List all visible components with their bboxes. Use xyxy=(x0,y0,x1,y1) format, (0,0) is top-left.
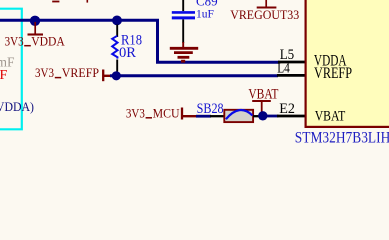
power port VREGOUT33 xyxy=(230,0,299,22)
svg-text:3V3: 3V3 xyxy=(126,105,145,120)
power port 3V3_VDDA xyxy=(5,22,66,48)
ground (power gnd under C89) xyxy=(170,42,198,61)
svg-text:VBAT: VBAT xyxy=(315,108,346,124)
junction node D (VBAT tap) xyxy=(258,111,267,120)
svg-text:F: F xyxy=(0,68,8,83)
svg-text:(VDDA): (VDDA) xyxy=(0,99,34,114)
wire: 3V3_VDDA rail to pin L5 xyxy=(0,20,280,62)
svg-text:MCU: MCU xyxy=(153,105,180,120)
net label fragment (top edge, cut) xyxy=(52,1,59,3)
svg-text:SB28: SB28 xyxy=(197,101,224,117)
pin L5 (VDDA) xyxy=(278,61,305,64)
pin L4 (VREFP) xyxy=(277,74,305,77)
solder bridge SB28 xyxy=(210,110,260,122)
wire stub fragment (top edge, cut) xyxy=(86,0,88,3)
junction node A (VDDA label tap) xyxy=(30,16,40,26)
IC U1 STM32H7B3LIH body xyxy=(306,0,389,127)
svg-text:0R: 0R xyxy=(119,45,136,61)
wire: junction to pin E2 xyxy=(267,115,279,118)
svg-text:VREFP: VREFP xyxy=(62,65,99,80)
pin E2 (VBAT) xyxy=(277,115,305,118)
svg-text:1uF: 1uF xyxy=(196,9,214,21)
capacitor C89 xyxy=(172,0,195,43)
svg-text:C89: C89 xyxy=(196,0,218,8)
net label 3V3_MCU xyxy=(126,105,197,120)
resistor R18 xyxy=(112,25,117,72)
junction node C (R18 bottom on VREFP wire) xyxy=(112,71,121,80)
net label 3V3_VREFP xyxy=(35,65,111,81)
wire: 3V3_MCU to SB28 xyxy=(196,115,211,118)
svg-text:L4: L4 xyxy=(277,60,290,76)
svg-text:3V3: 3V3 xyxy=(35,65,54,80)
wire: 3V3_VREFP to pin L4 xyxy=(110,74,278,77)
power port VBAT xyxy=(248,87,278,112)
svg-text:E2: E2 xyxy=(279,101,295,117)
cyan note box (partial, right edge) xyxy=(0,9,22,130)
svg-text:VREFP: VREFP xyxy=(314,65,352,82)
junction node B (R18 top) xyxy=(112,16,122,26)
svg-text:3V3: 3V3 xyxy=(5,33,24,48)
svg-text:STM32H7B3LIH: STM32H7B3LIH xyxy=(295,129,389,146)
svg-text:VREGOUT33: VREGOUT33 xyxy=(230,8,299,22)
svg-text:VDDA: VDDA xyxy=(31,33,65,48)
